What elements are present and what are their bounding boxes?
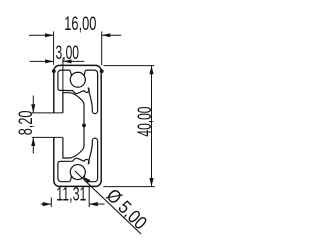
dimension 40,00 top arrow: [149, 66, 153, 75]
dimension 8,20 line and extension lines: [32, 96, 63, 154]
svg-text:3,00: 3,00: [56, 43, 80, 64]
top cavity contour: [58, 70, 98, 114]
dimension 3,00 line and extension line: [30, 58, 85, 113]
dimension 11,31 left arrow: [43, 202, 52, 206]
bottom cavity contour (mirror of top): [58, 138, 98, 182]
bottom bore circle (diameter 5) upper arc: [70, 165, 85, 176]
dimension 16,00 line and extension lines: [29, 31, 121, 65]
top bore circle (diameter 5) lower arc: [70, 76, 85, 87]
vertex dot top-right: [100, 69, 104, 73]
dimension 11,31 right arrow: [89, 202, 98, 206]
leader arrowhead on bore edge: [84, 177, 91, 183]
dimension 8,20 top arrow: [31, 104, 35, 113]
svg-text:16,00: 16,00: [64, 14, 96, 35]
dimension 40,00 bottom arrow: [149, 178, 153, 187]
profile outer contour: [54, 65, 101, 186]
dimension 3,00 left arrow: [45, 59, 54, 63]
slot cavity contour: [63, 93, 84, 158]
vertex dot mid spine: [82, 124, 86, 128]
svg-text:40,00: 40,00: [135, 107, 156, 137]
dimension 8,20 bottom arrow: [31, 137, 35, 146]
dimension 11,31 line and extension lines: [41, 186, 105, 208]
dimension 16,00 left arrow: [45, 33, 54, 37]
leader line for diameter 5,00: [75, 171, 141, 234]
dimension 40,00 line and extension lines: [103, 66, 154, 187]
svg-text:8,20: 8,20: [16, 111, 37, 136]
dimension 16,00 right arrow: [102, 33, 111, 37]
dimension 3,00 right arrow: [63, 59, 72, 63]
svg-text:11,31: 11,31: [56, 184, 86, 205]
vertex dot top-left: [52, 69, 56, 73]
